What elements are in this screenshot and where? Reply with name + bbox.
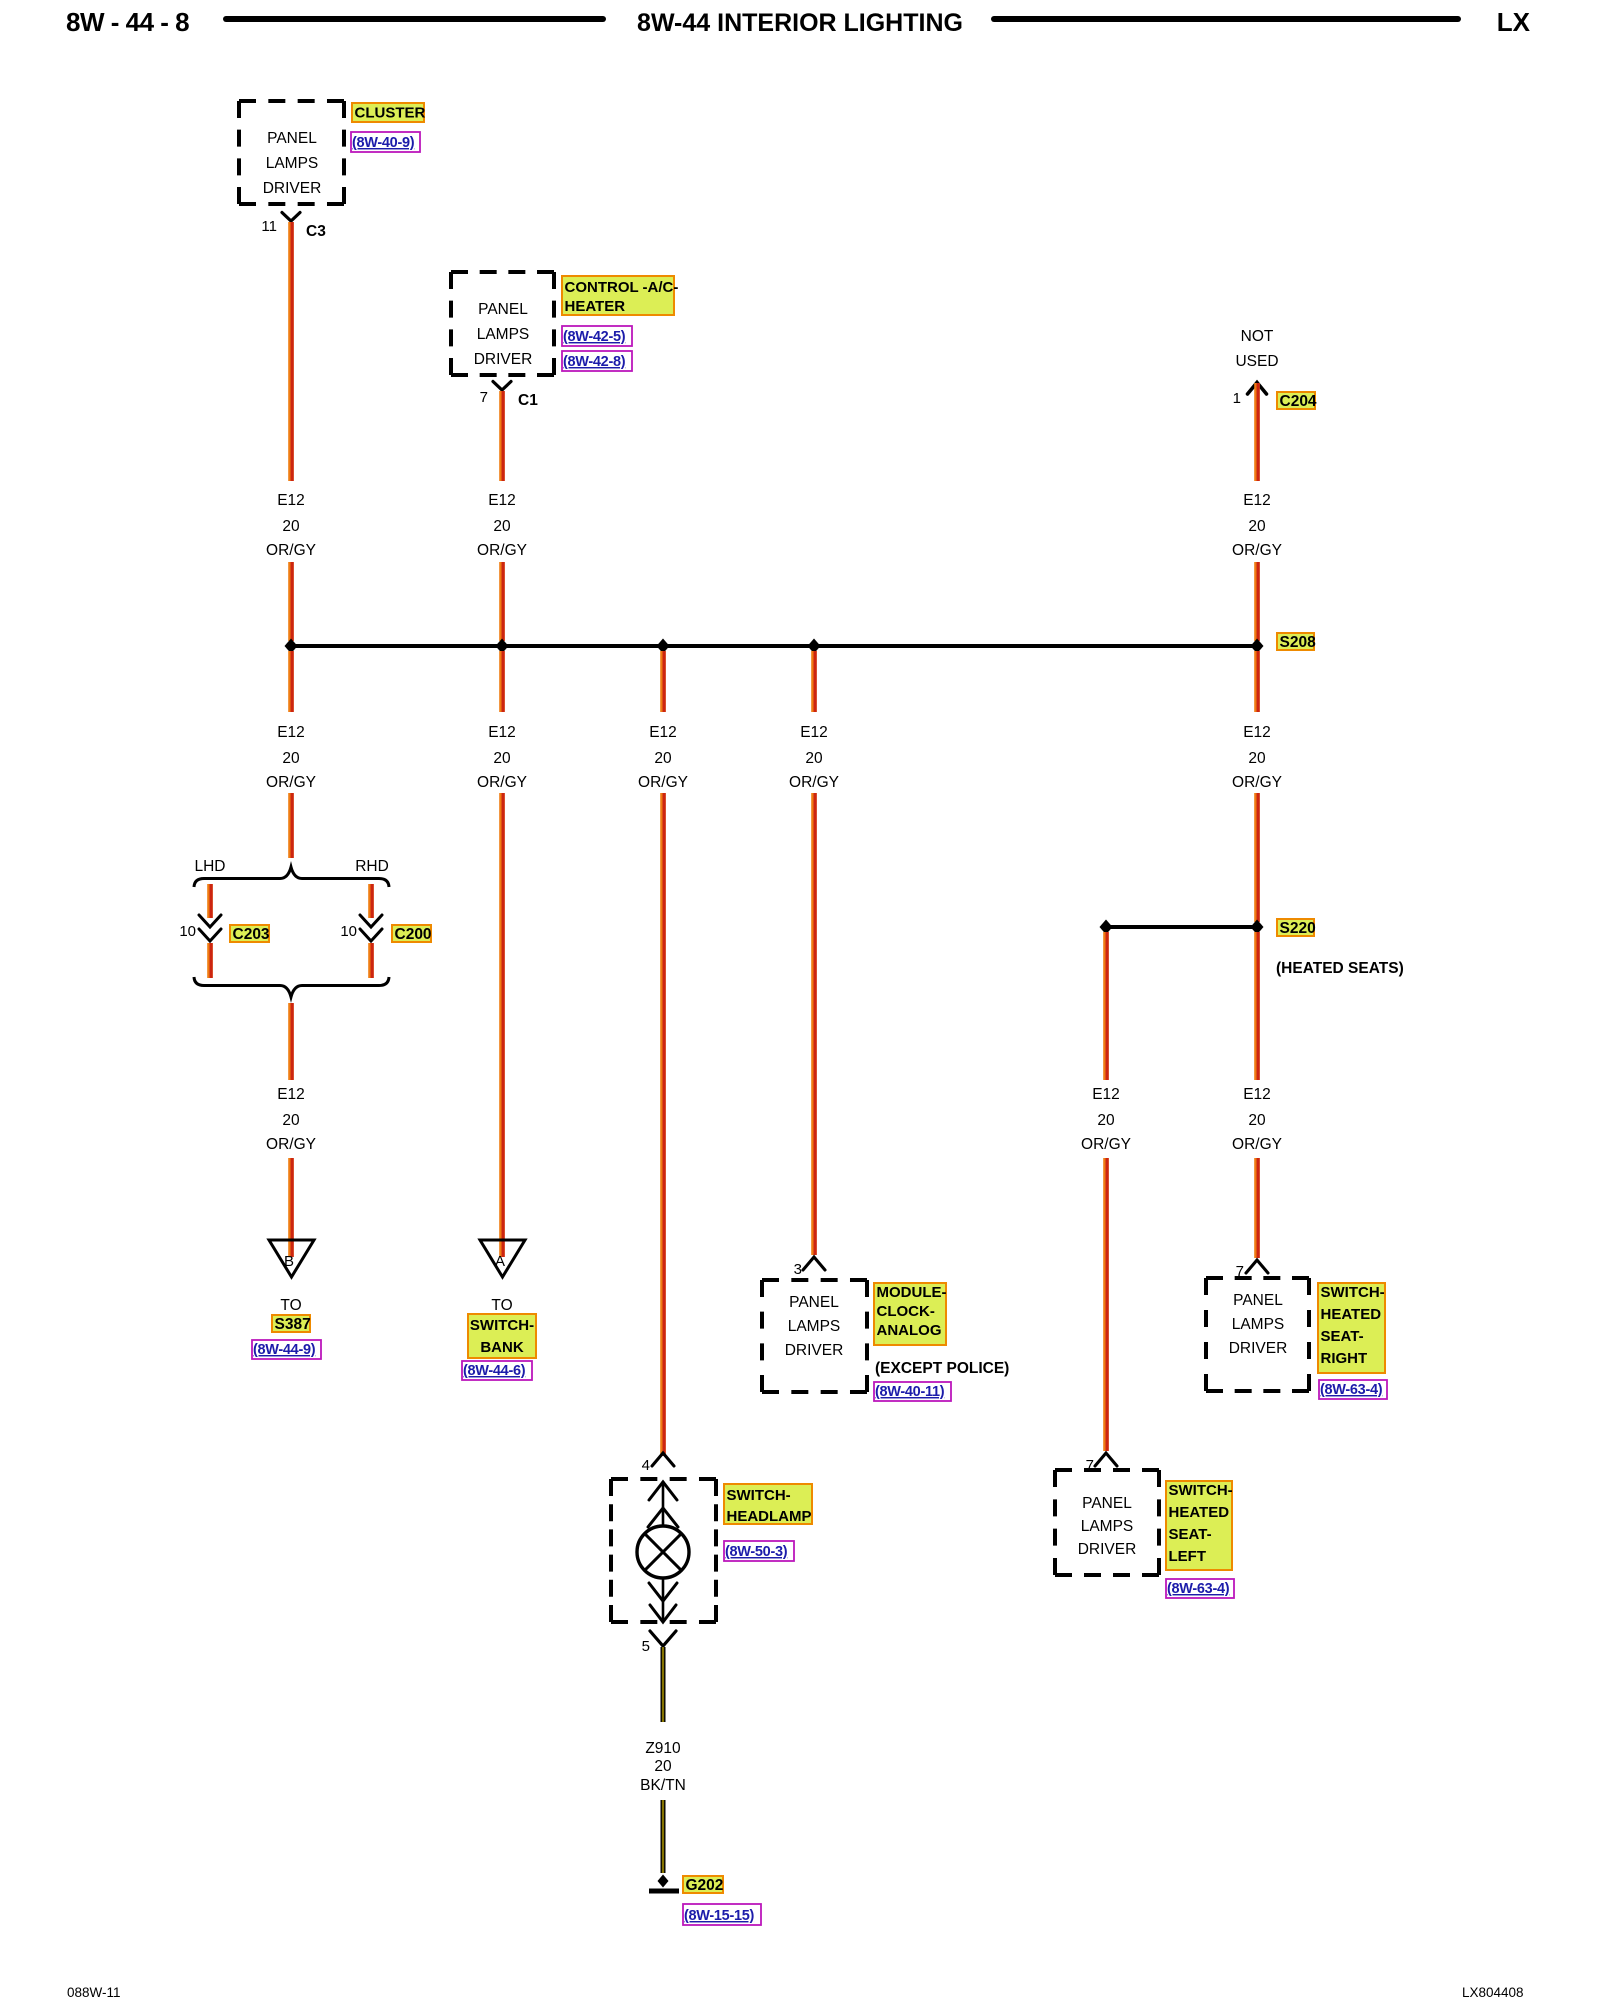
label NOT USED — [1235, 328, 1278, 370]
label SWITCH-HEATED SEAT-LEFT — [1166, 1481, 1233, 1570]
header rule left — [226, 16, 603, 22]
label EXCEPT POLICE — [875, 1360, 1009, 1377]
svg-text:MODULE-: MODULE- — [877, 1284, 947, 1301]
wire label E12 20 OR/GY col2 upper — [477, 492, 527, 559]
svg-text:(EXCEPT POLICE): (EXCEPT POLICE) — [875, 1360, 1009, 1377]
wire col1 to LHD/RHD brace — [291, 793, 292, 858]
svg-text:OR/GY: OR/GY — [1232, 542, 1282, 559]
svg-text:088W-11: 088W-11 — [67, 1985, 121, 2000]
svg-text:10: 10 — [179, 923, 196, 940]
svg-text:SEAT-: SEAT- — [1169, 1526, 1212, 1543]
top brace — [194, 867, 389, 887]
svg-text:RHD: RHD — [355, 858, 389, 875]
svg-text:B: B — [284, 1253, 294, 1270]
svg-text:3: 3 — [794, 1261, 802, 1278]
svg-text:Z910: Z910 — [645, 1740, 681, 1757]
junction col4 on bus — [808, 639, 821, 654]
svg-text:E12: E12 — [277, 724, 305, 741]
pin 10 of C203 — [179, 923, 196, 940]
wire col1 to triangle B — [291, 1158, 292, 1257]
header platform code LX — [1497, 7, 1531, 37]
wire E12 from C3 down — [291, 222, 292, 481]
svg-text:(8W-44-9): (8W-44-9) — [253, 1342, 316, 1358]
headlamp switch internal contact upper — [648, 1481, 678, 1527]
wire Z910 upper — [661, 1647, 666, 1722]
wire col6 below S220 — [1257, 932, 1258, 1080]
component box MODULE-CLOCK-ANALOG panel lamps driver — [762, 1280, 867, 1392]
svg-text:SWITCH-: SWITCH- — [1169, 1482, 1233, 1499]
svg-text:OR/GY: OR/GY — [266, 1136, 316, 1153]
label TO switch-bank — [491, 1297, 512, 1314]
wire col2 below bus — [502, 651, 503, 712]
splice S208 junction — [1251, 639, 1264, 654]
svg-text:S387: S387 — [275, 1316, 311, 1333]
svg-text:USED: USED — [1235, 353, 1278, 370]
svg-text:OR/GY: OR/GY — [1232, 774, 1282, 791]
wire E12 col1 to splice S208 — [291, 562, 292, 641]
wire label E12 20 OR/GY col2 lower — [477, 724, 527, 791]
label C203 — [230, 925, 270, 943]
svg-text:C3: C3 — [306, 223, 326, 240]
label CLUSTER — [352, 103, 426, 122]
svg-text:LAMPS: LAMPS — [266, 155, 319, 172]
link 8W-50-3 — [724, 1541, 794, 1561]
svg-text:NOT: NOT — [1241, 328, 1274, 345]
svg-text:OR/GY: OR/GY — [266, 774, 316, 791]
footer sheet number 088W-11 — [67, 1985, 121, 2000]
svg-text:OR/GY: OR/GY — [477, 542, 527, 559]
svg-text:(8W-50-3): (8W-50-3) — [725, 1544, 788, 1560]
pin 7 chevron connector right — [1246, 1260, 1268, 1273]
lamp symbol (circle with X) — [637, 1526, 689, 1578]
svg-text:HEATED: HEATED — [1321, 1306, 1382, 1323]
wire col5 below S220 — [1106, 932, 1107, 1080]
svg-text:PANEL: PANEL — [267, 130, 317, 147]
svg-text:LHD: LHD — [194, 858, 225, 875]
pin 10 of C200 — [340, 923, 357, 940]
pin 4 of headlamp switch — [642, 1457, 650, 1474]
component box heated seat right panel lamps driver — [1206, 1278, 1309, 1391]
wire E12 from C1 down — [502, 391, 503, 481]
wire label E12 20 OR/GY col1 lower — [266, 724, 316, 791]
svg-text:OR/GY: OR/GY — [1232, 1136, 1282, 1153]
svg-text:(HEATED SEATS): (HEATED SEATS) — [1276, 960, 1404, 977]
header rule right — [994, 16, 1458, 22]
wire label E12 20 OR/GY col6 mid — [1232, 724, 1282, 791]
wire col4 below bus — [814, 651, 815, 712]
svg-text:E12: E12 — [1243, 1086, 1271, 1103]
pin 7 of heated seat right switch — [1236, 1263, 1244, 1280]
svg-text:LAMPS: LAMPS — [477, 326, 530, 343]
label C204 — [1277, 392, 1317, 410]
svg-text:RIGHT: RIGHT — [1321, 1350, 1368, 1367]
link 8W-63-4 right — [1319, 1380, 1387, 1399]
label LHD — [194, 858, 225, 875]
svg-text:PANEL: PANEL — [1233, 1292, 1283, 1309]
svg-text:10: 10 — [340, 923, 357, 940]
svg-text:S208: S208 — [1280, 634, 1317, 651]
wire Z910 lower — [661, 1800, 666, 1873]
link 8W-42-5 — [562, 326, 632, 346]
svg-text:CONTROL -A/C-: CONTROL -A/C- — [565, 279, 679, 296]
label SWITCH-HEATED SEAT-RIGHT — [1318, 1283, 1385, 1373]
pin 5 of headlamp switch — [642, 1638, 650, 1655]
svg-text:DRIVER: DRIVER — [474, 351, 533, 368]
svg-text:OR/GY: OR/GY — [477, 774, 527, 791]
svg-text:(8W-63-4): (8W-63-4) — [1167, 1581, 1230, 1597]
svg-text:LAMPS: LAMPS — [788, 1318, 841, 1335]
svg-text:20: 20 — [282, 518, 300, 535]
svg-text:HEADLAMP: HEADLAMP — [727, 1508, 812, 1525]
svg-text:SWITCH-: SWITCH- — [727, 1487, 791, 1504]
pin 3 chevron connector — [803, 1257, 825, 1270]
splice S220 branch wire — [1106, 925, 1257, 929]
header title 8W-44 INTERIOR LIGHTING — [637, 9, 963, 37]
label C200 — [392, 925, 432, 943]
wire label Z910 20 BK/TN — [640, 1740, 686, 1794]
svg-text:20: 20 — [654, 1758, 672, 1775]
link 8W-40-11 — [874, 1382, 951, 1401]
wire col2 down to triangle A — [502, 793, 503, 1257]
svg-text:8W-44 INTERIOR LIGHTING: 8W-44 INTERIOR LIGHTING — [637, 9, 963, 37]
header page number 8W-44-8 — [66, 7, 189, 37]
svg-text:CLOCK-: CLOCK- — [877, 1303, 935, 1320]
pin 3 of clock module — [794, 1261, 802, 1278]
wire col5 down to heated seat left switch — [1106, 1158, 1107, 1451]
svg-text:20: 20 — [805, 750, 823, 767]
connector C204 arrow symbol — [1248, 383, 1267, 395]
label MODULE-CLOCK-ANALOG — [874, 1283, 947, 1345]
svg-text:E12: E12 — [1092, 1086, 1120, 1103]
label S220 — [1277, 919, 1316, 937]
wire E12 from C204 down — [1257, 383, 1258, 481]
link 8W-15-15 — [683, 1904, 761, 1925]
svg-text:CLUSTER: CLUSTER — [355, 105, 426, 122]
wire col6 below S208 — [1257, 651, 1258, 712]
connector C3 name — [306, 223, 326, 240]
svg-text:ANALOG: ANALOG — [877, 1322, 942, 1339]
svg-text:SWITCH-: SWITCH- — [470, 1317, 534, 1334]
svg-text:G202: G202 — [686, 1877, 724, 1894]
svg-text:20: 20 — [1248, 518, 1266, 535]
svg-text:20: 20 — [654, 750, 672, 767]
svg-text:S220: S220 — [1280, 920, 1316, 937]
svg-text:SWITCH-: SWITCH- — [1321, 1284, 1385, 1301]
label S208 — [1277, 633, 1316, 651]
wire E12 col2 to splice S208 — [502, 562, 503, 641]
svg-text:PANEL: PANEL — [478, 301, 528, 318]
svg-text:E12: E12 — [1243, 492, 1271, 509]
svg-text:PANEL: PANEL — [1082, 1495, 1132, 1512]
wire col3 down to headlamp switch — [663, 793, 664, 1456]
junction col3 on bus — [657, 639, 670, 654]
svg-text:7: 7 — [480, 389, 488, 406]
wire label E12 20 OR/GY col1 upper — [266, 492, 316, 559]
svg-text:(8W-42-5): (8W-42-5) — [563, 329, 626, 345]
junction col2 on bus — [496, 639, 509, 654]
svg-text:20: 20 — [1097, 1112, 1115, 1129]
label HEATED SEATS — [1276, 960, 1404, 977]
svg-text:(8W-42-8): (8W-42-8) — [563, 354, 626, 370]
wire label E12 20 OR/GY col5 — [1081, 1086, 1131, 1153]
svg-text:LX804408: LX804408 — [1462, 1985, 1524, 2000]
wire label E12 20 OR/GY col1 bottom — [266, 1086, 316, 1153]
svg-text:LEFT: LEFT — [1169, 1548, 1207, 1565]
svg-text:BK/TN: BK/TN — [640, 1777, 686, 1794]
svg-text:5: 5 — [642, 1638, 650, 1655]
splice S220 junction — [1251, 920, 1264, 935]
pin 7 of heated seat left switch — [1086, 1457, 1094, 1474]
label G202 — [683, 1876, 723, 1894]
wire label E12 20 OR/GY col4 lower — [789, 724, 839, 791]
svg-text:E12: E12 — [1243, 724, 1271, 741]
headlamp switch internal contact lower — [649, 1578, 677, 1622]
svg-text:(8W-15-15): (8W-15-15) — [684, 1908, 755, 1924]
svg-text:LAMPS: LAMPS — [1081, 1518, 1134, 1535]
link 8W-63-4 left — [1166, 1579, 1234, 1598]
svg-text:DRIVER: DRIVER — [1229, 1340, 1288, 1357]
wire RHD branch — [371, 884, 372, 918]
svg-text:C203: C203 — [233, 926, 270, 943]
pin 7 chevron connector left — [1095, 1453, 1117, 1466]
svg-text:DRIVER: DRIVER — [785, 1342, 844, 1359]
svg-text:E12: E12 — [800, 724, 828, 741]
wire E12 col6 to splice S208 — [1257, 562, 1258, 641]
pin 7 of connector C1 — [480, 389, 488, 406]
wire label E12 20 OR/GY col6 upper — [1232, 492, 1282, 559]
svg-text:(8W-63-4): (8W-63-4) — [1320, 1382, 1383, 1398]
link 8W-42-8 — [562, 351, 632, 371]
ground G202 symbol — [649, 1875, 679, 1892]
connector C200 symbol — [360, 915, 382, 941]
off-page connector A triangle — [480, 1240, 525, 1277]
svg-text:E12: E12 — [488, 724, 516, 741]
svg-text:OR/GY: OR/GY — [266, 542, 316, 559]
component box CLUSTER panel lamps driver — [239, 101, 344, 204]
junction col1 on bus — [285, 639, 298, 654]
wire col3 below bus — [663, 651, 664, 712]
link 8W-44-9 — [252, 1340, 321, 1359]
svg-text:OR/GY: OR/GY — [1081, 1136, 1131, 1153]
svg-text:(8W-40-11): (8W-40-11) — [875, 1384, 945, 1400]
wire label E12 20 OR/GY col3 lower — [638, 724, 688, 791]
label S387 — [272, 1315, 311, 1333]
svg-text:HEATER: HEATER — [565, 298, 626, 315]
link 8W-40-9 — [351, 132, 420, 152]
pin 1 of connector C204 — [1233, 390, 1241, 407]
svg-text:E12: E12 — [649, 724, 677, 741]
svg-text:1: 1 — [1233, 390, 1241, 407]
svg-text:SEAT-: SEAT- — [1321, 1328, 1364, 1345]
svg-text:20: 20 — [282, 1112, 300, 1129]
wire col4 down to clock module — [814, 793, 815, 1255]
connector C203 symbol — [199, 915, 221, 941]
svg-text:E12: E12 — [277, 492, 305, 509]
bottom brace — [194, 977, 389, 997]
junction left of S220 — [1100, 920, 1113, 935]
connector C1 symbol — [493, 382, 511, 391]
svg-text:C1: C1 — [518, 392, 538, 409]
component box headlamp switch — [611, 1479, 716, 1622]
label CONTROL-A/C-HEATER — [562, 276, 678, 315]
off-page connector B triangle — [269, 1240, 314, 1277]
svg-text:DRIVER: DRIVER — [263, 180, 322, 197]
connector C3 symbol — [282, 213, 300, 222]
wire LHD branch — [210, 884, 211, 918]
wire col1 below braces — [291, 1003, 292, 1080]
svg-text:E12: E12 — [277, 1086, 305, 1103]
label RHD — [355, 858, 389, 875]
link 8W-44-6 — [462, 1361, 532, 1380]
svg-text:LX: LX — [1497, 7, 1531, 37]
svg-text:C204: C204 — [1280, 393, 1317, 410]
svg-text:E12: E12 — [488, 492, 516, 509]
component box heated seat left panel lamps driver — [1055, 1470, 1159, 1575]
wire col6 down to splice S220 — [1257, 793, 1258, 922]
svg-text:20: 20 — [493, 750, 511, 767]
svg-text:TO: TO — [280, 1297, 301, 1314]
svg-text:OR/GY: OR/GY — [638, 774, 688, 791]
connector C1 name — [518, 392, 538, 409]
svg-text:(8W-40-9): (8W-40-9) — [352, 135, 415, 151]
wire LHD branch lower — [210, 943, 211, 978]
svg-text:TO: TO — [491, 1297, 512, 1314]
component box CONTROL-A/C-HEATER panel lamps driver — [451, 272, 554, 375]
svg-text:PANEL: PANEL — [789, 1294, 839, 1311]
svg-text:4: 4 — [642, 1457, 650, 1474]
wire col6 down to heated seat right switch — [1257, 1158, 1258, 1258]
label TO S387 — [280, 1297, 301, 1314]
svg-text:C200: C200 — [395, 926, 432, 943]
svg-text:OR/GY: OR/GY — [789, 774, 839, 791]
svg-text:20: 20 — [1248, 1112, 1266, 1129]
label SWITCH-HEADLAMP — [724, 1484, 812, 1525]
pin 11 of connector C3 — [261, 218, 277, 235]
svg-text:HEATED: HEATED — [1169, 1504, 1230, 1521]
wire RHD branch lower — [371, 943, 372, 978]
svg-text:11: 11 — [261, 218, 277, 235]
svg-text:8W - 44 - 8: 8W - 44 - 8 — [66, 7, 189, 37]
label SWITCH-BANK — [468, 1314, 536, 1358]
svg-text:A: A — [495, 1253, 505, 1270]
wire col1 below bus — [291, 651, 292, 712]
svg-text:DRIVER: DRIVER — [1078, 1541, 1137, 1558]
svg-text:(8W-44-6): (8W-44-6) — [463, 1363, 526, 1379]
connector pin5 symbol — [650, 1631, 676, 1646]
svg-text:BANK: BANK — [480, 1339, 523, 1356]
pin 4 chevron connector — [652, 1453, 674, 1466]
svg-text:LAMPS: LAMPS — [1232, 1316, 1285, 1333]
svg-text:20: 20 — [282, 750, 300, 767]
bus wire between splices — [291, 644, 1257, 648]
footer drawing number LX804408 — [1462, 1985, 1524, 2000]
wire label E12 20 OR/GY col6 lower — [1232, 1086, 1282, 1153]
svg-text:20: 20 — [493, 518, 511, 535]
svg-text:20: 20 — [1248, 750, 1266, 767]
